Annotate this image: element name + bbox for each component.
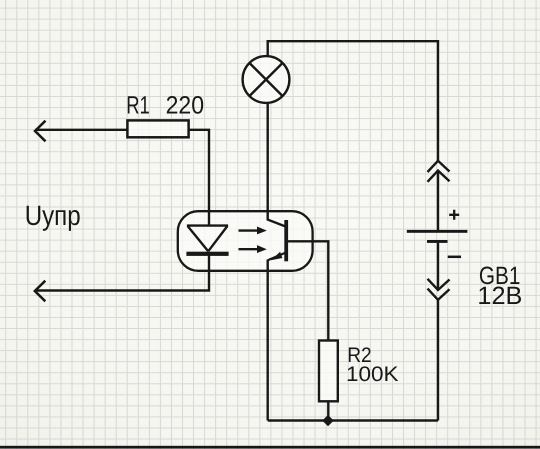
resistor R2 body bbox=[319, 341, 338, 402]
lamp EL circle bbox=[243, 56, 290, 103]
wire LED cathode to lower-left arrow bbox=[35, 254, 209, 291]
optocoupler LED triangle bbox=[187, 226, 228, 252]
wire top rail bbox=[268, 41, 438, 160]
wire battery to bottom rail bbox=[437, 300, 439, 421]
wire lamp to optocoupler collector bbox=[268, 103, 286, 226]
wire R2 bottom bbox=[327, 401, 329, 420]
bottom border line bbox=[0, 446, 540, 449]
battery GB1 chevrons top bbox=[428, 161, 450, 182]
junction node dot bbox=[322, 415, 333, 426]
battery GB1 minus sign bbox=[448, 256, 461, 259]
resistor R1 body bbox=[127, 120, 188, 137]
svg-text:R1: R1 bbox=[126, 91, 150, 119]
wire bottom rail bbox=[268, 419, 438, 421]
lamp EL cross bbox=[250, 63, 283, 96]
light arrow 2 bbox=[239, 245, 267, 253]
phototransistor emitter arrowhead bbox=[271, 252, 283, 260]
wire R1 right to LED anode bbox=[189, 130, 210, 226]
phototransistor base bar bbox=[284, 220, 288, 261]
optocoupler LED cathode bar bbox=[186, 252, 228, 256]
svg-text:220: 220 bbox=[166, 91, 205, 119]
battery GB1 short plate bbox=[427, 240, 448, 243]
wire R2 top to base bbox=[288, 241, 328, 340]
optocoupler body bbox=[178, 211, 313, 271]
battery GB1 long plate bbox=[407, 230, 468, 233]
battery GB1 chevrons bottom bbox=[428, 279, 450, 300]
wire battery top segment bbox=[437, 170, 439, 230]
svg-text:100K: 100K bbox=[346, 363, 399, 386]
wire emitter to bottom rail bbox=[267, 260, 269, 421]
wire battery bottom segment bbox=[437, 243, 439, 289]
phototransistor emitter bbox=[268, 253, 285, 260]
component interior fills bbox=[127, 56, 337, 401]
arrow upper-left barbs bbox=[35, 121, 46, 142]
svg-text:Uупр: Uупр bbox=[25, 200, 81, 231]
svg-text:12В: 12В bbox=[477, 282, 522, 310]
battery GB1 plus sign bbox=[449, 210, 459, 220]
light arrow 1 bbox=[239, 227, 267, 235]
wire R1 left with arrow bbox=[35, 129, 127, 131]
arrow lower-left barbs bbox=[35, 281, 46, 302]
